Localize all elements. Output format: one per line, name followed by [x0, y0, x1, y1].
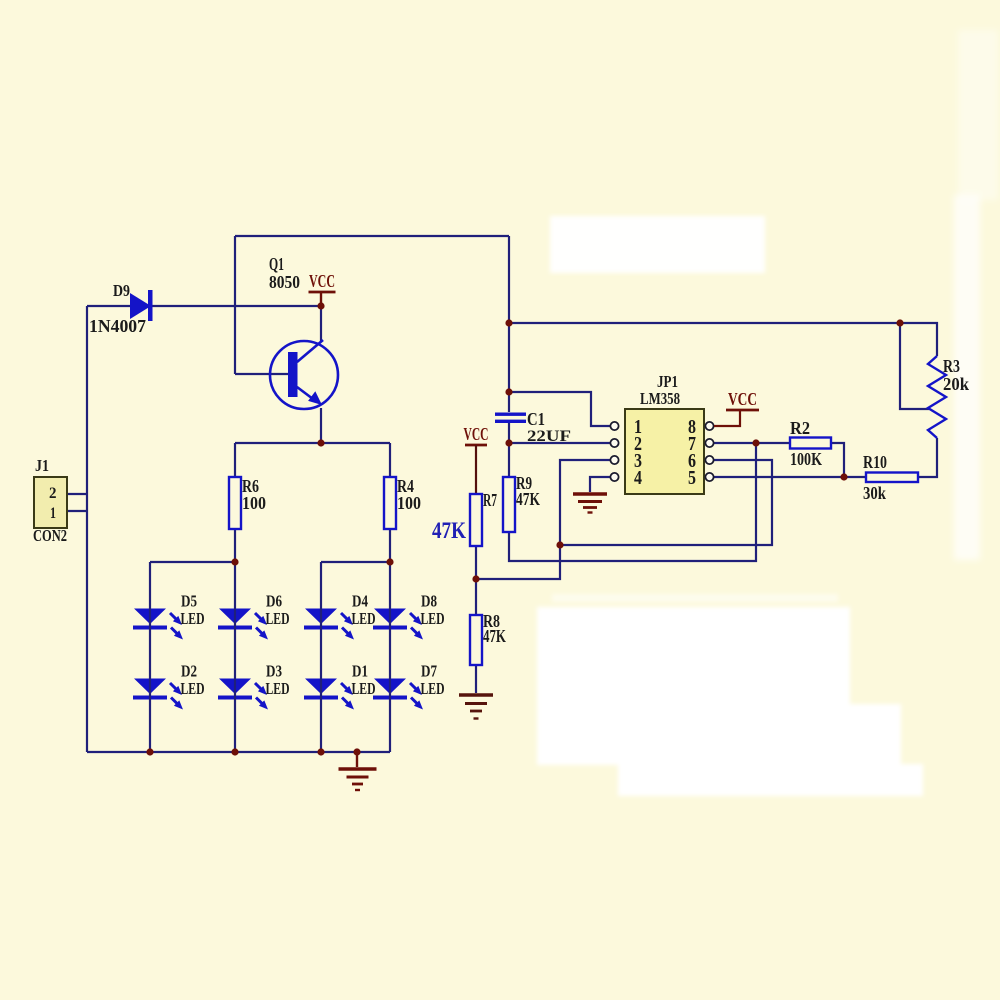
svg-text:D5: D5	[181, 592, 197, 611]
wire: ground stub on bottom rail	[356, 752, 358, 767]
svg-text:LED: LED	[266, 679, 290, 698]
LED D2	[133, 662, 205, 710]
wire: R3 wiper branch	[900, 323, 929, 409]
wire: R7 bottom lead	[475, 546, 477, 579]
wire: pin3 net to R7/R8 junction	[476, 460, 610, 579]
junction node (rail col1)	[146, 748, 153, 755]
pin 6	[688, 450, 714, 472]
wire: R4 top lead	[389, 443, 391, 477]
LED D5	[133, 592, 205, 640]
ground (pin 4)	[573, 494, 607, 513]
svg-text:22UF: 22UF	[527, 428, 571, 445]
resistor R8 47K	[470, 611, 506, 665]
svg-text:C1: C1	[527, 409, 545, 429]
junction node (pin2/C1/R9)	[505, 439, 512, 446]
wire: pin7 net to R2	[714, 442, 790, 444]
wire: VCC stem (collector)	[320, 292, 322, 306]
junction node (VCC rail x509)	[505, 319, 512, 326]
wire: R2 right lead down	[831, 443, 844, 477]
junction node (rail col2)	[231, 748, 238, 755]
pin 5	[688, 467, 714, 489]
svg-text:Q1: Q1	[269, 254, 284, 274]
svg-text:LM358: LM358	[640, 389, 680, 408]
wire: base horizontal into Q1	[235, 373, 289, 375]
junction node (R6 branch)	[231, 558, 238, 565]
op-amp IC JP1 LM358	[625, 372, 704, 494]
wire: LED column 3 vertical	[320, 562, 322, 752]
wire: R3 bottom lead to R10	[918, 438, 937, 477]
svg-text:5: 5	[688, 467, 696, 489]
svg-text:20k: 20k	[943, 374, 969, 394]
potentiometer R3 20k	[928, 356, 969, 438]
pin 8	[688, 416, 714, 438]
wire: R10 left lead	[844, 476, 866, 478]
svg-text:D2: D2	[181, 662, 197, 681]
connector J1 CON2	[33, 456, 67, 545]
svg-text:1: 1	[50, 505, 56, 522]
svg-text:R3: R3	[943, 356, 960, 376]
svg-text:1N4007: 1N4007	[89, 316, 146, 336]
LED D4	[304, 592, 376, 640]
LED D7	[373, 662, 445, 710]
wire: top rail	[235, 235, 509, 237]
pin 1	[610, 416, 642, 438]
white watermark blob (bottom)	[537, 594, 923, 796]
svg-text:R10: R10	[863, 452, 887, 472]
svg-text:LED: LED	[352, 609, 376, 628]
wire: left vertical rail	[86, 306, 88, 752]
resistor R4 100	[384, 476, 421, 529]
wire: pin2 net	[509, 442, 610, 444]
wire: D9 branch horizontal	[87, 305, 321, 307]
wire: R6 top lead	[234, 443, 236, 477]
white watermark band (right)	[954, 30, 998, 560]
junction node (collector/VCC/D9)	[317, 302, 324, 309]
resistor R10 30k	[863, 452, 918, 503]
svg-text:2: 2	[49, 485, 57, 502]
white watermark blob (top)	[550, 216, 765, 273]
ground (under R8)	[459, 695, 493, 719]
ground (bottom rail)	[339, 769, 377, 790]
wire: pin6 net	[560, 460, 772, 545]
wire: VCC stem to pin 8	[714, 410, 740, 426]
wire: J1 pin2 stub	[67, 493, 87, 495]
resistor R7	[470, 490, 497, 546]
svg-text:VCC: VCC	[728, 389, 757, 409]
svg-text:30k: 30k	[863, 483, 886, 503]
wire: J1 pin1 stub	[67, 510, 87, 512]
junction node (R7/R8 node)	[472, 575, 479, 582]
svg-text:D7: D7	[421, 662, 437, 681]
svg-text:8050: 8050	[269, 272, 300, 292]
svg-text:D8: D8	[421, 592, 437, 611]
wire: pin1 net	[509, 392, 610, 426]
svg-text:LED: LED	[421, 679, 445, 698]
junction node (pin7/R2 node)	[752, 439, 759, 446]
svg-text:D9: D9	[113, 281, 130, 300]
junction node (R4 branch)	[386, 558, 393, 565]
resistor R2 100K	[790, 418, 831, 469]
junction node (pin1/C1)	[505, 388, 512, 395]
power VCC (R7)	[464, 424, 489, 445]
wire: collector vertical	[320, 306, 322, 342]
svg-text:R2: R2	[790, 418, 810, 438]
LED D6	[218, 592, 290, 640]
wire: VCC rail to R3 top	[509, 323, 937, 356]
wire: R4 column to bottom rail	[389, 529, 391, 752]
svg-text:CON2: CON2	[33, 526, 67, 545]
pin 3	[610, 450, 642, 472]
resistor R9 47K	[503, 473, 540, 532]
svg-text:LED: LED	[181, 679, 205, 698]
capacitor C1 22UF	[495, 409, 571, 445]
LED D8	[373, 592, 445, 640]
svg-text:4: 4	[634, 467, 642, 489]
wire: base drop vertical	[234, 236, 236, 374]
junction node (emitter rail)	[317, 439, 324, 446]
junction node (rail gnd stub)	[353, 748, 360, 755]
svg-text:VCC: VCC	[464, 424, 489, 444]
svg-text:D6: D6	[266, 592, 282, 611]
wire: R8 bottom lead to ground	[475, 665, 477, 693]
resistor R6 100	[229, 476, 266, 529]
svg-text:100K: 100K	[790, 449, 822, 469]
wire: branch to LED column 1	[150, 561, 235, 563]
junction node (pin3/pin6 node)	[556, 541, 563, 548]
diode D9 1N4007	[89, 281, 153, 336]
svg-text:VCC: VCC	[309, 271, 335, 291]
svg-text:100: 100	[242, 493, 266, 513]
LED D1	[304, 662, 376, 710]
pin 7	[688, 433, 714, 455]
svg-text:LED: LED	[266, 609, 290, 628]
wire: VCC stem to R7	[475, 445, 477, 494]
svg-text:D3: D3	[266, 662, 282, 681]
svg-text:LED: LED	[352, 679, 376, 698]
svg-text:47K: 47K	[516, 489, 540, 509]
wire: drop x=509 from top rail to C1	[508, 236, 510, 412]
wire: pin5 net	[714, 476, 844, 478]
svg-text:47K: 47K	[432, 518, 466, 543]
power VCC (collector)	[309, 271, 336, 292]
svg-text:J1: J1	[35, 456, 49, 475]
wire: pin4 stub to ground	[590, 477, 610, 492]
wire: branch to LED column 3	[321, 561, 390, 563]
power VCC (pin 8)	[726, 389, 759, 410]
junction node (R3 top node)	[896, 319, 903, 326]
svg-text:R7: R7	[483, 490, 497, 510]
svg-text:47K: 47K	[483, 626, 506, 646]
wire: C1 bottom lead	[508, 423, 510, 477]
svg-text:LED: LED	[181, 609, 205, 628]
pin 4	[610, 467, 642, 489]
junction node (R2/R10/pin5 node)	[840, 473, 847, 480]
wire: R9 bottom run to pin7 node	[509, 443, 756, 561]
svg-text:D1: D1	[352, 662, 368, 681]
pin 2	[610, 433, 642, 455]
svg-text:100: 100	[397, 493, 421, 513]
wire: R6 column to bottom rail	[234, 529, 236, 752]
svg-text:LED: LED	[421, 609, 445, 628]
LED D3	[218, 662, 290, 710]
wire: R8 top lead	[475, 579, 477, 615]
junction node (rail col3)	[317, 748, 324, 755]
wire: emitter rail	[235, 442, 390, 444]
wire: bottom rail	[87, 751, 390, 753]
wire: emitter vertical	[320, 408, 322, 443]
transistor Q1 8050	[269, 254, 338, 409]
svg-text:D4: D4	[352, 592, 368, 611]
wire: LED column 1 vertical	[149, 562, 151, 752]
